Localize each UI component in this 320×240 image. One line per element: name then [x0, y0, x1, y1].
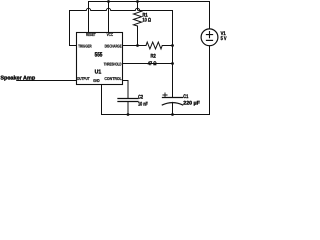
svg-text:Speaker Amp: Speaker Amp — [0, 74, 35, 81]
svg-text:555: 555 — [95, 52, 103, 59]
svg-text:R2: R2 — [151, 53, 156, 59]
svg-text:5 V: 5 V — [221, 36, 227, 42]
svg-text:C1: C1 — [183, 94, 188, 100]
svg-text:RESET: RESET — [86, 32, 96, 37]
svg-text:CONTROL: CONTROL — [104, 76, 122, 81]
svg-text:C2: C2 — [138, 94, 143, 100]
svg-text:VCC: VCC — [107, 32, 114, 37]
svg-text:47 Ω: 47 Ω — [148, 61, 157, 67]
svg-text:OUTPUT: OUTPUT — [77, 76, 90, 81]
svg-text:220 µF: 220 µF — [183, 100, 200, 106]
svg-text:THRESHOLD: THRESHOLD — [104, 61, 122, 66]
svg-text:U1: U1 — [95, 70, 102, 76]
svg-text:10 Ω: 10 Ω — [142, 17, 151, 23]
svg-text:GND: GND — [93, 78, 100, 83]
svg-text:10 nF: 10 nF — [138, 101, 148, 107]
svg-text:TRIGGER: TRIGGER — [78, 44, 91, 49]
svg-text:DISCHARGE: DISCHARGE — [105, 44, 122, 49]
